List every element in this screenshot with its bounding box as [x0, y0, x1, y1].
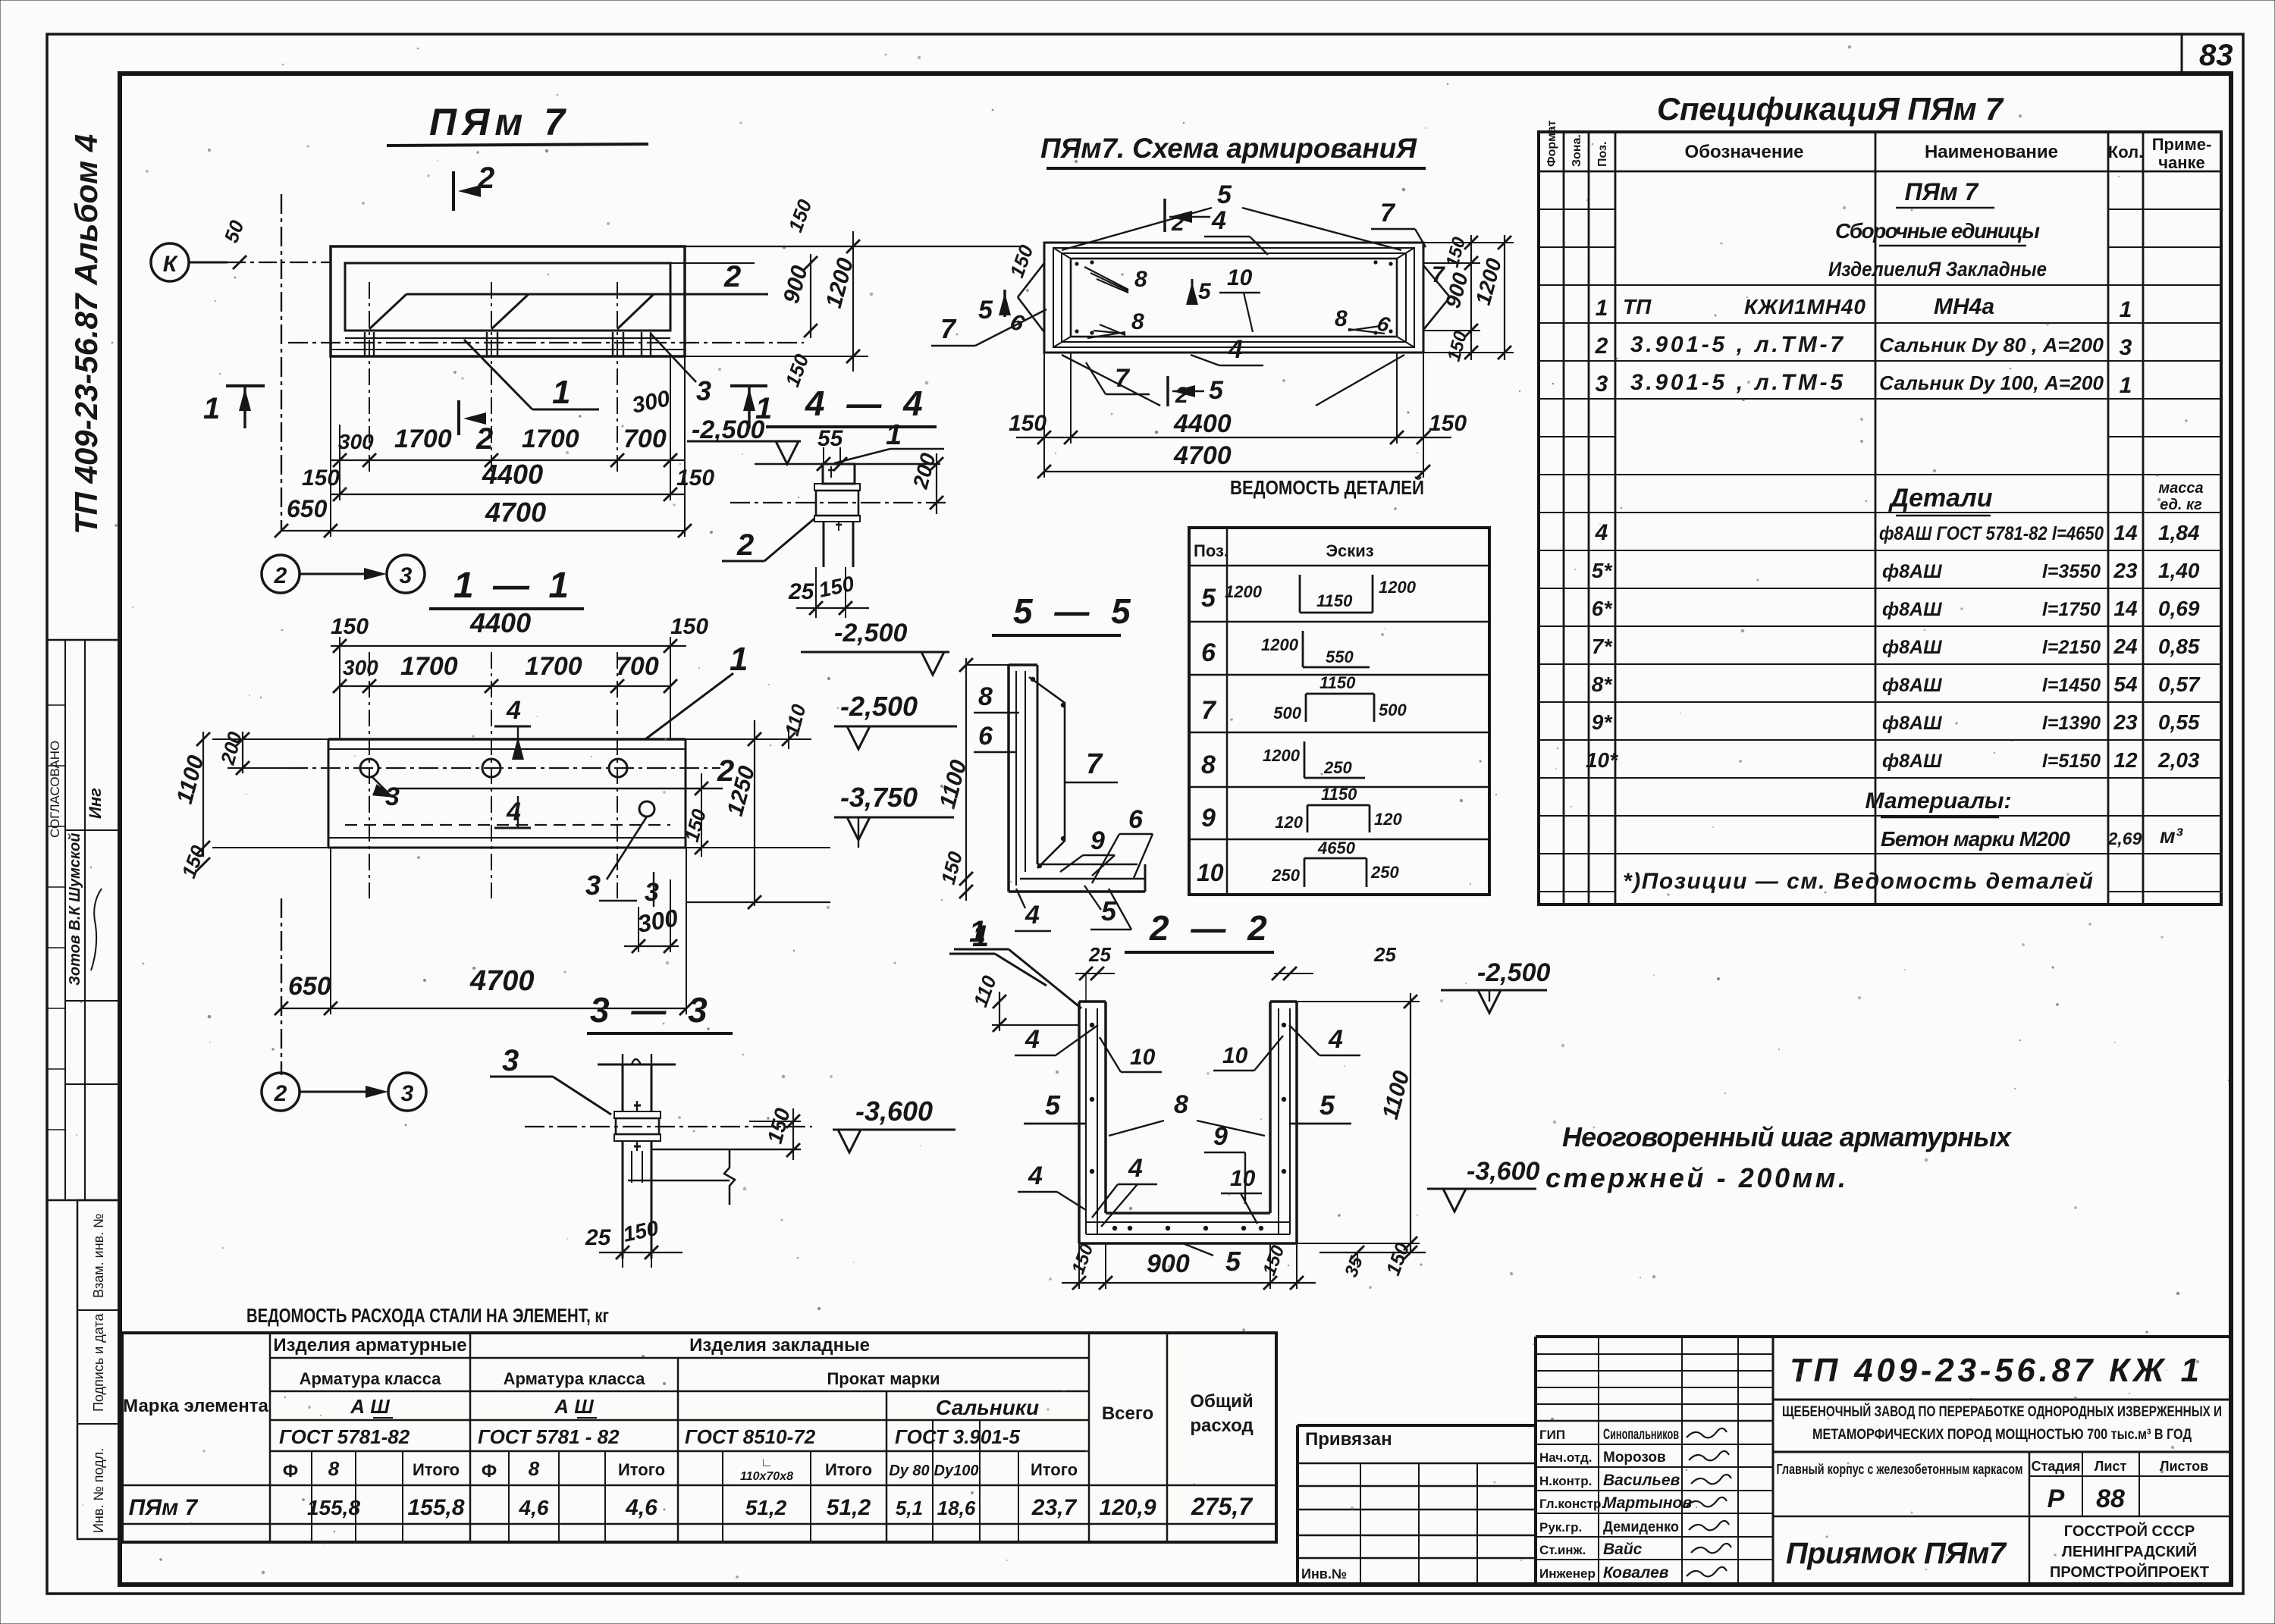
svg-text:8: 8	[1134, 267, 1147, 292]
svg-text:ЛЕНИНГРАДСКИЙ: ЛЕНИНГРАДСКИЙ	[2062, 1542, 2197, 1560]
svg-text:Прокат марки: Прокат марки	[827, 1369, 940, 1388]
svg-text:1200: 1200	[1379, 578, 1417, 597]
3-3 pipe lower	[622, 1141, 624, 1259]
schema right dims	[1470, 235, 1472, 360]
details table frame	[1189, 528, 1489, 895]
svg-text:4: 4	[1211, 206, 1226, 235]
svg-text:3: 3	[502, 1044, 519, 1077]
svg-text:3 — 3: 3 — 3	[590, 990, 714, 1030]
schema corner diagonals	[1053, 248, 1071, 259]
svg-text:155,8: 155,8	[307, 1496, 360, 1519]
svg-text:Зотов В.К Шумской: Зотов В.К Шумской	[67, 833, 83, 986]
svg-text:250: 250	[1323, 758, 1352, 777]
1-1 axes dashdot verticals	[369, 652, 370, 898]
svg-text:0,55: 0,55	[2158, 710, 2200, 734]
svg-text:250: 250	[1271, 866, 1300, 885]
svg-text:ТП 409-23-56.87 Альбом 4: ТП 409-23-56.87 Альбом 4	[68, 134, 104, 535]
svg-text:88: 88	[2096, 1484, 2125, 1513]
svg-text:ГОСТ 5781-82: ГОСТ 5781-82	[279, 1425, 410, 1448]
svg-text:7*: 7*	[1592, 635, 1613, 658]
svg-text:Сборочные единицы: Сборочные единицы	[1835, 219, 2040, 243]
svg-text:Неоговоренный шаг арматурных: Неоговоренный шаг арматурных	[1562, 1121, 2013, 1152]
sleeve circles	[360, 759, 378, 777]
svg-text:ГОСТ 8510-72: ГОСТ 8510-72	[685, 1425, 816, 1448]
svg-text:51,2: 51,2	[745, 1496, 787, 1519]
svg-text:1100: 1100	[1378, 1068, 1415, 1122]
svg-text:1: 1	[886, 419, 902, 451]
svg-text:51,2: 51,2	[827, 1495, 871, 1520]
leader 2	[406, 293, 768, 296]
svg-text:10: 10	[1227, 265, 1253, 290]
svg-text:1200: 1200	[1261, 635, 1299, 654]
svg-text:200: 200	[908, 450, 940, 492]
svg-text:6: 6	[1128, 805, 1144, 834]
svg-text:5,1: 5,1	[896, 1497, 923, 1519]
sleeve ticks in bottom band	[364, 332, 366, 356]
svg-text:К: К	[163, 252, 179, 277]
svg-text:1150: 1150	[1316, 591, 1353, 610]
svg-text:1700: 1700	[525, 652, 582, 681]
svg-text:900: 900	[1147, 1249, 1190, 1278]
svg-text:ф8АШ: ф8АШ	[1882, 637, 1942, 658]
svg-text:КЖИ1МН40: КЖИ1МН40	[1744, 295, 1865, 318]
svg-text:Dy100: Dy100	[934, 1463, 979, 1479]
svg-text:4700: 4700	[485, 497, 546, 528]
section mark 1 left	[226, 384, 265, 387]
svg-text:3.901-5 , л.ТМ-5: 3.901-5 , л.ТМ-5	[1630, 370, 1844, 395]
svg-text:150: 150	[302, 466, 340, 491]
svg-text:4700: 4700	[469, 965, 535, 997]
svg-text:ф8АШ: ф8АШ	[1882, 713, 1942, 734]
svg-text:СпецификациЯ ПЯм 7: СпецификациЯ ПЯм 7	[1657, 91, 2004, 127]
svg-text:23: 23	[2113, 710, 2138, 734]
svg-text:1150: 1150	[1319, 673, 1356, 692]
svg-text:4: 4	[1028, 1162, 1043, 1190]
svg-text:3: 3	[585, 870, 601, 901]
svg-text:Изделия закладные: Изделия закладные	[689, 1335, 870, 1356]
svg-text:-2,500: -2,500	[840, 691, 918, 722]
svg-text:4 — 4: 4 — 4	[805, 384, 929, 423]
svg-text:А Ш: А Ш	[350, 1395, 390, 1418]
dim row1	[331, 459, 685, 461]
svg-text:6: 6	[978, 722, 993, 751]
1-1 top dim 4400	[331, 645, 686, 647]
axis K circle	[151, 243, 189, 281]
1-1 bottom dim 4700	[281, 1008, 686, 1009]
svg-text:Поз.: Поз.	[1194, 541, 1228, 560]
svg-text:5: 5	[1201, 584, 1216, 613]
svg-text:550: 550	[1326, 647, 1354, 666]
svg-text:150: 150	[1068, 1241, 1097, 1277]
svg-text:8*: 8*	[1592, 672, 1613, 696]
3-3 center dashdot	[525, 1126, 812, 1127]
svg-text:Бетон марки М200: Бетон марки М200	[1881, 827, 2070, 851]
svg-text:Кол.: Кол.	[2108, 143, 2143, 161]
svg-text:120: 120	[1374, 810, 1402, 829]
label 1 leader	[645, 673, 733, 739]
label 3 first	[372, 776, 388, 793]
svg-text:7: 7	[1115, 364, 1131, 393]
svg-text:9: 9	[1090, 826, 1105, 855]
svg-text:4400: 4400	[469, 607, 531, 638]
svg-text:СОГЛАСОВАНО: СОГЛАСОВАНО	[48, 741, 62, 838]
svg-text:7: 7	[940, 313, 957, 344]
svg-text:ВЕДОМОСТЬ ДЕТАЛЕЙ: ВЕДОМОСТЬ ДЕТАЛЕЙ	[1230, 476, 1424, 499]
svg-text:2: 2	[723, 260, 741, 293]
svg-text:25: 25	[585, 1225, 612, 1250]
svg-text:3: 3	[645, 878, 659, 907]
plan bottom ledge lines	[345, 337, 670, 339]
svg-text:l=2150: l=2150	[2042, 637, 2101, 658]
svg-text:50: 50	[219, 217, 248, 246]
svg-text:5: 5	[1217, 180, 1232, 209]
svg-text:4: 4	[1595, 520, 1608, 545]
svg-text:ф8АШ ГОСТ 5781-82 l=4650: ф8АШ ГОСТ 5781-82 l=4650	[1879, 523, 2104, 544]
svg-text:Листов: Листов	[2160, 1459, 2208, 1474]
svg-text:150: 150	[670, 614, 708, 639]
svg-text:ПЯм 7: ПЯм 7	[429, 101, 570, 143]
svg-text:2: 2	[274, 563, 287, 588]
svg-text:300: 300	[630, 386, 673, 419]
svg-text:Взам. инв. №: Взам. инв. №	[91, 1213, 106, 1298]
svg-text:150: 150	[783, 196, 816, 236]
svg-text:Общий: Общий	[1190, 1391, 1253, 1412]
svg-text:7: 7	[1380, 199, 1396, 227]
svg-text:9: 9	[1213, 1122, 1228, 1151]
svg-text:0,69: 0,69	[2158, 597, 2200, 620]
svg-text:-2,500: -2,500	[834, 619, 907, 647]
svg-text:150: 150	[1444, 328, 1472, 363]
svg-text:Наименование: Наименование	[1925, 142, 2058, 162]
svg-text:1700: 1700	[522, 425, 579, 453]
svg-text:3: 3	[1596, 372, 1608, 397]
svg-text:4700: 4700	[1173, 441, 1232, 470]
dash axes verticals	[369, 282, 370, 472]
svg-text:23,7: 23,7	[1031, 1495, 1078, 1520]
svg-text:Вайс: Вайс	[1603, 1541, 1643, 1558]
svg-text:Итого: Итого	[1031, 1460, 1078, 1479]
svg-text:Лист: Лист	[2095, 1459, 2127, 1474]
svg-text:14: 14	[2113, 597, 2138, 620]
svg-text:Ф: Ф	[482, 1461, 497, 1481]
svg-text:ВЕДОМОСТЬ РАСХОДА СТАЛИ НА ЭЛЕ: ВЕДОМОСТЬ РАСХОДА СТАЛИ НА ЭЛЕМЕНТ, кг	[246, 1304, 609, 1327]
3-3 pipe upper	[622, 1064, 624, 1111]
4-4 pipe/flange	[823, 464, 855, 484]
section mark 2 top	[452, 171, 455, 211]
svg-text:ф8АШ: ф8АШ	[1882, 561, 1942, 582]
5-5 bent bar 7	[1029, 677, 1065, 868]
svg-text:250: 250	[1370, 863, 1399, 882]
dim row3 4700	[281, 530, 685, 531]
svg-text:Инженер: Инженер	[1539, 1566, 1596, 1581]
5-5 left dim 1100/150	[965, 658, 967, 901]
svg-text:4: 4	[1328, 1025, 1343, 1054]
svg-text:150: 150	[1005, 242, 1037, 281]
svg-text:900: 900	[1441, 270, 1473, 311]
leader 1	[464, 340, 532, 409]
svg-text:9: 9	[1201, 804, 1216, 832]
svg-text:стержней - 200мм.: стержней - 200мм.	[1545, 1162, 1846, 1193]
svg-text:2 — 2: 2 — 2	[1149, 908, 1273, 948]
4-4 floor line	[755, 463, 823, 466]
svg-text:Инв. № подл.: Инв. № подл.	[91, 1448, 106, 1533]
svg-text:1,84: 1,84	[2158, 521, 2200, 544]
svg-text:4,6: 4,6	[625, 1495, 657, 1520]
svg-text:2,69: 2,69	[2107, 829, 2142, 848]
dim row2 4400	[331, 494, 685, 495]
svg-text:8: 8	[1335, 306, 1348, 331]
labels 3 right pair	[607, 817, 647, 879]
svg-text:300: 300	[343, 656, 378, 679]
svg-text:700: 700	[623, 425, 667, 453]
svg-text:ПЯм 7: ПЯм 7	[129, 1495, 199, 1520]
svg-text:700: 700	[616, 652, 659, 681]
section mark 1 right	[730, 384, 767, 387]
svg-text:ПРОМСТРОЙПРОЕКТ: ПРОМСТРОЙПРОЕКТ	[2050, 1563, 2209, 1581]
2-2 wall bars	[1085, 1008, 1087, 1234]
plan vertical axis line	[281, 194, 282, 531]
svg-text:Главный корпус с железобетонны: Главный корпус с железобетонным каркасом	[1777, 1462, 2023, 1477]
svg-text:Зона.: Зона.	[1571, 134, 1583, 167]
schema left chevron	[1018, 263, 1044, 297]
svg-text:Н.контр.: Н.контр.	[1539, 1474, 1592, 1488]
svg-text:7: 7	[1432, 262, 1445, 287]
svg-text:l=1750: l=1750	[2042, 599, 2101, 620]
svg-text:Нач.отд.: Нач.отд.	[1539, 1450, 1592, 1465]
svg-text:4: 4	[1025, 1025, 1040, 1054]
svg-text:Подпись и дата: Подпись и дата	[91, 1313, 106, 1412]
svg-text:150: 150	[1429, 411, 1467, 436]
svg-text:Морозов: Морозов	[1603, 1450, 1666, 1466]
svg-text:150: 150	[1259, 1243, 1288, 1278]
svg-text:6: 6	[1201, 638, 1216, 667]
svg-text:2: 2	[1595, 334, 1608, 359]
svg-text:Приямок ПЯм7: Приямок ПЯм7	[1786, 1537, 2007, 1570]
svg-text:Инг: Инг	[86, 788, 105, 819]
svg-text:Гл.констр.: Гл.констр.	[1539, 1497, 1605, 1511]
svg-text:8: 8	[1131, 309, 1144, 334]
svg-text:Итого: Итого	[825, 1460, 872, 1479]
svg-text:54: 54	[2113, 672, 2138, 696]
svg-text:-2,500: -2,500	[692, 415, 764, 444]
svg-text:150: 150	[1442, 234, 1470, 269]
svg-text:Арматура класса: Арматура класса	[300, 1369, 442, 1388]
schema bottom bracket diagonals	[1062, 355, 1160, 406]
svg-text:18,6: 18,6	[937, 1497, 976, 1519]
svg-text:10: 10	[1130, 1045, 1156, 1070]
1-1 dim row2	[340, 685, 670, 687]
right dims of plan: 900/1200/150	[810, 254, 811, 338]
svg-text:-3,600: -3,600	[855, 1096, 933, 1127]
svg-text:Материалы:: Материалы:	[1865, 788, 2012, 814]
svg-text:8: 8	[529, 1457, 540, 1480]
svg-text:ТП: ТП	[1623, 295, 1652, 318]
schema top mark 2	[1163, 199, 1166, 232]
svg-text:300: 300	[635, 904, 680, 938]
svg-text:МЕТАМОРФИЧЕСКИХ ПОРОД МОЩНОСТЬ: МЕТАМОРФИЧЕСКИХ ПОРОД МОЩНОСТЬЮ 700 тыс.…	[1812, 1427, 2192, 1443]
svg-text:8: 8	[978, 682, 993, 711]
svg-text:500: 500	[1379, 701, 1407, 720]
svg-text:ф8АШ: ф8АШ	[1882, 599, 1942, 620]
svg-text:Сальник Dy 80 , А=200: Сальник Dy 80 , А=200	[1879, 334, 2104, 356]
svg-text:l=5150: l=5150	[2042, 751, 2101, 772]
svg-text:1: 1	[2120, 297, 2132, 322]
svg-text:4400: 4400	[1173, 409, 1232, 438]
svg-text:2: 2	[1171, 211, 1185, 236]
svg-text:8: 8	[328, 1457, 340, 1480]
schema nested rects	[1044, 243, 1423, 353]
svg-text:МН4а: МН4а	[1934, 294, 1994, 319]
3-3 right 150 dim	[792, 1108, 794, 1160]
1250 dim	[754, 720, 755, 906]
svg-text:7: 7	[1086, 748, 1103, 780]
svg-text:Марка элемента: Марка элемента	[123, 1396, 268, 1416]
svg-text:3: 3	[401, 1081, 414, 1106]
svg-text:ПЯм 7: ПЯм 7	[1905, 178, 1980, 205]
2-2 bottom dims	[1078, 1243, 1080, 1289]
svg-text:-3,600: -3,600	[1467, 1157, 1539, 1186]
top edge extensions	[685, 246, 1020, 247]
svg-text:4: 4	[506, 696, 521, 725]
svg-text:Приме-: Приме-	[2152, 135, 2212, 154]
svg-text:6*: 6*	[1592, 597, 1613, 620]
svg-text:Итого: Итого	[618, 1460, 665, 1479]
svg-text:1700: 1700	[394, 425, 452, 453]
schema bottom dims	[1043, 353, 1045, 478]
svg-text:1: 1	[969, 915, 986, 948]
svg-text:ГОСТ 5781 - 82: ГОСТ 5781 - 82	[478, 1425, 620, 1448]
svg-text:4650: 4650	[1317, 839, 1356, 857]
svg-text:ф8АШ: ф8АШ	[1882, 751, 1942, 772]
svg-text:500: 500	[1273, 704, 1301, 723]
svg-text:10*: 10*	[1586, 748, 1618, 772]
svg-text:1 — 1: 1 — 1	[453, 566, 573, 606]
5-5 wall outline	[1007, 665, 1010, 879]
svg-text:14: 14	[2113, 521, 2138, 544]
svg-text:Инв.№: Инв.№	[1301, 1566, 1347, 1582]
svg-text:1200: 1200	[1225, 582, 1263, 601]
svg-text:ЩЕБЕНОЧНЫЙ ЗАВОД ПО ПЕРЕРАБОТК: ЩЕБЕНОЧНЫЙ ЗАВОД ПО ПЕРЕРАБОТКЕ ОДНОРОДН…	[1782, 1403, 2222, 1420]
svg-text:м³: м³	[2160, 824, 2183, 848]
svg-text:Арматура класса: Арматура класса	[504, 1369, 646, 1388]
svg-text:275,7: 275,7	[1191, 1493, 1254, 1520]
axis circles 2-3 lower	[262, 1073, 300, 1111]
svg-text:1: 1	[1596, 296, 1608, 321]
svg-text:150: 150	[763, 1105, 795, 1146]
svg-text:ГОССТРОЙ СССР: ГОССТРОЙ СССР	[2064, 1522, 2195, 1540]
svg-text:1: 1	[552, 374, 570, 411]
svg-text:4: 4	[1128, 1154, 1143, 1183]
corner dots	[1075, 262, 1078, 265]
svg-text:ф8АШ: ф8АШ	[1882, 675, 1942, 696]
svg-text:Васильев: Васильев	[1603, 1472, 1680, 1489]
svg-text:Обозначение: Обозначение	[1685, 142, 1804, 162]
spec table frame	[1539, 132, 2221, 904]
svg-text:6: 6	[1374, 311, 1393, 337]
svg-text:10: 10	[1222, 1043, 1248, 1068]
svg-text:1700: 1700	[400, 652, 458, 681]
svg-text:Привязан: Привязан	[1305, 1429, 1392, 1450]
svg-text:расход: расход	[1190, 1416, 1253, 1436]
svg-text:ТП 409-23-56.87 КЖ 1: ТП 409-23-56.87 КЖ 1	[1790, 1352, 2199, 1389]
4-4 center dashdot	[730, 502, 948, 503]
svg-text:12: 12	[2113, 748, 2138, 772]
4-4 lower pipe dims	[815, 567, 817, 618]
svg-text:чанке: чанке	[2158, 153, 2205, 172]
svg-text:650: 650	[287, 495, 328, 522]
svg-text:Итого: Итого	[413, 1460, 460, 1479]
svg-text:Р: Р	[2047, 1484, 2065, 1513]
svg-text:2: 2	[475, 422, 493, 456]
3-3 flange	[614, 1111, 661, 1118]
svg-text:900: 900	[779, 263, 813, 306]
svg-text:ГОСТ 3.901-5: ГОСТ 3.901-5	[895, 1425, 1020, 1448]
4-4 dim 200	[936, 453, 937, 514]
left margin approval box	[47, 640, 120, 1200]
svg-text:24: 24	[2113, 635, 2138, 658]
svg-text:5 — 5: 5 — 5	[1013, 591, 1137, 631]
svg-text:l=3550: l=3550	[2042, 561, 2101, 582]
svg-text:А Ш: А Ш	[554, 1395, 594, 1418]
svg-text:1200: 1200	[1263, 746, 1301, 765]
svg-text:2,03: 2,03	[2157, 748, 2200, 772]
svg-text:Изделия арматурные: Изделия арматурные	[273, 1335, 466, 1356]
title block main	[1536, 1335, 2231, 1338]
svg-text:3: 3	[400, 563, 413, 588]
svg-text:Детали: Детали	[1888, 484, 1993, 513]
steel table frame	[122, 1333, 1276, 1542]
svg-text:1: 1	[203, 392, 220, 425]
svg-text:ПЯм7. Схема армированиЯ: ПЯм7. Схема армированиЯ	[1040, 133, 1417, 164]
svg-text:Ковалев: Ковалев	[1603, 1564, 1669, 1582]
svg-text:4: 4	[1025, 901, 1040, 930]
svg-text:масса: масса	[2158, 480, 2203, 497]
2-2 wall outline	[1078, 1002, 1081, 1243]
svg-text:Формат: Формат	[1545, 120, 1558, 167]
svg-text:120: 120	[1275, 813, 1303, 832]
svg-text:Поз.: Поз.	[1596, 142, 1609, 167]
svg-text:Рук.гр.: Рук.гр.	[1539, 1520, 1582, 1535]
svg-text:Мартынов: Мартынов	[1603, 1494, 1692, 1512]
leader 3	[651, 334, 696, 382]
svg-text:Dy 80: Dy 80	[889, 1463, 929, 1479]
schema right chevron	[1423, 265, 1450, 297]
svg-text:10: 10	[1230, 1166, 1256, 1191]
svg-text:1150: 1150	[1321, 785, 1357, 804]
1-1 slab band	[328, 738, 686, 741]
svg-text:1: 1	[730, 641, 748, 678]
svg-text:Всего: Всего	[1102, 1403, 1153, 1424]
svg-text:5: 5	[978, 296, 993, 324]
svg-text:150: 150	[676, 466, 714, 491]
svg-text:Сальники: Сальники	[936, 1396, 1039, 1419]
svg-text:150: 150	[621, 1216, 661, 1246]
svg-text:l=1390: l=1390	[2042, 713, 2101, 734]
svg-text:0,57: 0,57	[2158, 672, 2201, 696]
plan inner rect	[345, 263, 670, 331]
page number box	[2181, 34, 2183, 74]
svg-text:25: 25	[1088, 943, 1111, 966]
plan outer rect	[331, 246, 685, 356]
svg-text:1,40: 1,40	[2158, 559, 2200, 582]
svg-text:Стадия: Стадия	[2032, 1459, 2081, 1474]
svg-text:300: 300	[338, 430, 374, 453]
svg-text:Синопальников: Синопальников	[1603, 1427, 1679, 1443]
svg-text:Сальник Dy 100, А=200: Сальник Dy 100, А=200	[1879, 372, 2104, 394]
label 2 leader	[392, 788, 723, 790]
svg-text:7: 7	[1201, 696, 1217, 725]
svg-text:2: 2	[274, 1081, 287, 1106]
